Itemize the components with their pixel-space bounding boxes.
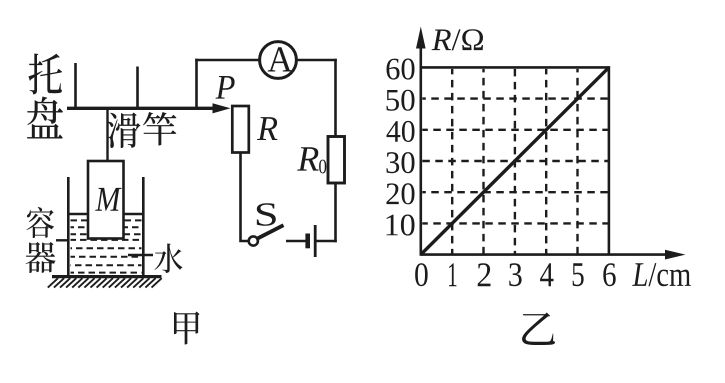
ammeter label A xyxy=(268,47,293,71)
axis label L/cm xyxy=(632,263,691,286)
wire: ammeter to top right corner xyxy=(296,59,337,62)
wire: top left to ammeter xyxy=(195,59,260,62)
rheostat R xyxy=(232,106,249,153)
battery positive plate (long thin) xyxy=(314,225,317,257)
label M xyxy=(95,188,122,211)
grid right border (L=6) xyxy=(608,66,611,255)
axis label R/Omega xyxy=(432,29,483,50)
water surface xyxy=(69,213,143,215)
pointer line for 容器 xyxy=(56,239,68,241)
dashed horizontal gridlines R=10..50 xyxy=(422,99,608,224)
wire: left vertical from top wire to slide bar xyxy=(195,59,198,108)
resistor R0 xyxy=(328,137,345,184)
battery negative plate (short thick) xyxy=(305,234,310,249)
label S xyxy=(257,203,276,226)
mass block M xyxy=(88,161,124,239)
hanger rod xyxy=(106,108,108,161)
tray left pin xyxy=(74,63,77,108)
wire: battery to right corner xyxy=(317,240,337,243)
label 盘 (tray) xyxy=(27,96,63,138)
slider P arrowhead xyxy=(213,103,231,113)
ground line xyxy=(52,275,162,278)
label 器 xyxy=(26,242,56,273)
label 容 xyxy=(26,207,54,238)
grid top border (R=60) xyxy=(421,66,609,69)
ammeter A1 circle xyxy=(260,42,297,79)
x tick labels 0-6 xyxy=(415,263,616,286)
y axis xyxy=(416,27,426,256)
container left wall xyxy=(67,177,70,277)
label 托 (tray) xyxy=(28,53,62,94)
tray right pin xyxy=(136,67,139,109)
label 乙 xyxy=(522,312,555,344)
label 竿 xyxy=(143,112,176,145)
wire: right vertical lower xyxy=(334,183,337,242)
x axis xyxy=(421,250,686,260)
label R0 xyxy=(297,147,326,173)
container right wall xyxy=(142,177,145,277)
wire: switch to battery xyxy=(286,240,306,243)
label 滑 xyxy=(108,113,141,149)
label 水 xyxy=(155,244,183,273)
switch S pivot xyxy=(249,236,258,245)
y tick labels 10-60 xyxy=(386,58,414,235)
wire: right vertical upper xyxy=(334,59,337,137)
label 甲 xyxy=(174,311,200,344)
ground hatching xyxy=(48,278,162,287)
dashed vertical gridlines L=1..5 xyxy=(452,69,577,254)
slide rod bar xyxy=(67,107,221,110)
pointer line for 水 xyxy=(128,254,153,256)
water dashes xyxy=(71,220,142,272)
switch S lever xyxy=(258,225,284,238)
R-L characteristic line xyxy=(421,67,609,254)
wire: R bottom down and to switch xyxy=(241,153,249,242)
label R xyxy=(257,117,278,140)
label P xyxy=(215,76,234,99)
